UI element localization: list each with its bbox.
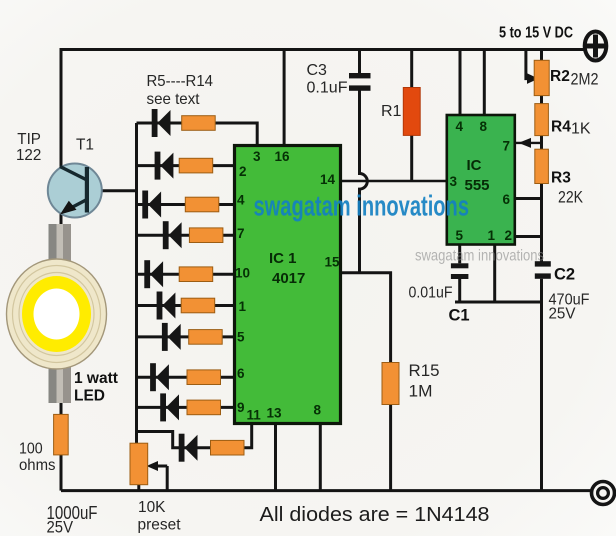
wire row pin3 [137,123,258,147]
LED bottom leg [49,367,72,404]
svg-text:0.1uF: 0.1uF [307,80,348,97]
diode D8 row pin6 [150,363,169,391]
svg-text:1: 1 [239,299,247,314]
svg-text:3: 3 [253,149,261,164]
wire IC1 pin16 riser to rail [283,50,286,147]
svg-text:C1: C1 [449,307,470,325]
wire preset wiper to ground rail with arrow [147,461,168,491]
svg-text:1K: 1K [571,121,591,138]
diode D4 row pin7 [163,221,182,249]
wire 555 pin2 to column [514,235,542,238]
transistor Q1 TIP122 [48,164,102,218]
wire C2 bottom to ground rail [540,279,543,491]
resistor R2 preset [534,60,549,95]
wire transistor base to common line [86,189,138,192]
resistor 100 ohms [54,414,69,455]
wire row pin7 [137,234,236,237]
resistor row pin4 [185,197,219,212]
wire 555 pin6 to column [514,197,542,200]
resistor 10K preset [130,443,148,485]
555 pin labels [450,119,513,243]
svg-text:8: 8 [314,403,322,418]
wire LED bottom leg to 100ohm [60,401,63,415]
svg-text:2: 2 [239,164,247,179]
wire R15 bottom to ground rail [389,404,392,491]
wire row pin2 [137,164,236,167]
svg-text:preset: preset [138,517,182,534]
svg-text:13: 13 [267,406,283,421]
wire R2 wiper branch with arrow [526,50,539,84]
svg-text:All diodes are = 1N4148: All diodes are = 1N4148 [260,504,490,526]
svg-text:1 watt: 1 watt [74,370,118,387]
wire R1 bottom [410,135,413,181]
svg-text:LED: LED [74,388,105,405]
wire IC1 pin14 to 555 pin3 [340,180,447,182]
svg-text:5: 5 [237,330,245,345]
wire 555 pin5 to C1 [458,244,461,263]
capacitor C2 [535,261,551,279]
svg-text:4: 4 [456,119,464,134]
svg-text:7: 7 [237,226,245,241]
wire row pin10 [137,273,236,276]
svg-text:10K: 10K [138,499,166,516]
resistor row pin7 [189,228,223,243]
capacitor C3 [349,73,371,91]
svg-text:2: 2 [505,228,513,243]
svg-text:1M: 1M [409,383,433,401]
wire row pin11 [137,423,252,448]
LED 1 watt lamp [7,259,107,369]
svg-text:10: 10 [235,266,250,281]
wire IC1 pin15 to R15 top [340,273,391,363]
svg-text:IC 1: IC 1 [269,250,297,267]
svg-text:5: 5 [456,228,464,243]
svg-text:25V: 25V [549,306,577,323]
wire row pin6 [137,376,236,379]
svg-text:100: 100 [19,441,43,458]
svg-text:8: 8 [480,119,488,134]
svg-text:5 to 15 V DC: 5 to 15 V DC [499,25,573,42]
diode D2 row pin2 [155,152,174,180]
svg-text:22K: 22K [558,189,583,207]
resistor row pin6 [187,370,221,385]
svg-text:TIP: TIP [17,131,41,148]
IC1 pin labels [235,149,340,423]
wire diode column common line [135,123,138,445]
svg-text:6: 6 [503,192,511,207]
wire IC1 pin13 drop to ground rail [274,423,277,491]
wire ground link under 555 [455,301,542,304]
diode D10 row pin11 [179,434,198,462]
svg-text:R1: R1 [381,103,402,120]
IC U1 4017 [235,146,341,424]
svg-text:25V: 25V [47,519,74,536]
wire C1 bottom to ground link [458,279,461,302]
svg-text:swagatam innovations: swagatam innovations [254,191,470,223]
resistor row pin9 [187,400,221,415]
resistor R4 [535,104,549,136]
diode D9 row pin9 [160,393,179,421]
wire R4 to R3 column [540,135,543,149]
terminal output negative [592,482,615,505]
wire R3 bottom column to C2 [540,183,543,262]
wire R1 top drop [410,50,413,89]
svg-text:122: 122 [16,147,41,164]
wire preset bottom stub [137,484,140,491]
wire C3 bottom with hop over pin14 wire [360,91,368,273]
wire row pin9 [137,406,236,409]
svg-text:C2: C2 [554,266,575,284]
svg-text:4: 4 [237,193,245,208]
svg-text:C3: C3 [307,62,328,79]
terminal positive supply [585,32,607,61]
wire row pin5 [137,335,236,338]
wire 555 pin7 to R4/R3 junction with arrow [514,138,542,148]
wire top positive rail [61,48,585,51]
diode D7 row pin5 [162,323,181,351]
resistor row pin3 [182,116,216,131]
svg-text:R2: R2 [550,68,570,85]
resistor R15 [382,363,399,405]
svg-text:IC: IC [467,157,482,174]
resistor row pin2 [179,158,213,173]
wire IC1 pin8 drop to ground rail [319,423,322,491]
wire R2 top stub [540,50,543,62]
diode D1 row pin3 [152,109,171,137]
diode D3 row pin4 [142,191,161,219]
resistor row pin1 [181,298,215,313]
svg-text:0.01uF: 0.01uF [409,285,453,302]
svg-text:11: 11 [247,408,262,423]
svg-text:see text: see text [147,91,201,108]
svg-text:swagatam innovations: swagatam innovations [415,248,544,265]
wire left drop to transistor collector [60,48,63,168]
diode D6 row pin1 [157,292,176,320]
svg-text:6: 6 [237,366,245,381]
svg-text:R4: R4 [551,119,571,136]
resistor row pin11 [211,440,245,455]
wire bottom ground rail [61,489,592,492]
svg-text:2M2: 2M2 [571,71,599,89]
svg-text:9: 9 [237,400,245,415]
LED top leg [49,224,72,265]
wire transistor emitter to LED leg [60,209,63,226]
resistor R3 [535,149,549,183]
wire R2 to R4 [540,95,543,104]
svg-text:16: 16 [275,149,291,164]
svg-text:R15: R15 [409,362,440,380]
wire 555 pin1 drop to ground link [493,244,496,302]
svg-text:R5----R14: R5----R14 [147,73,214,90]
wire 100ohm bottom to rail [60,454,63,491]
IC U2 555 [447,115,515,245]
svg-text:3: 3 [450,174,458,189]
svg-text:R3: R3 [551,170,571,187]
resistor row pin5 [189,330,223,345]
capacitor C1 [451,263,469,279]
resistor R1 [403,88,420,136]
resistor row pin10 [179,267,213,282]
svg-text:ohms: ohms [19,457,56,474]
diode D5 row pin10 [144,260,163,288]
svg-text:1: 1 [488,228,496,243]
wire C3 top drop [358,50,361,75]
wire row pin1 [137,304,236,307]
svg-text:15: 15 [325,255,341,270]
wire row pin4 [137,203,236,206]
wire 555 pin4 drop [459,50,462,117]
wire 555 pin8 drop [483,50,486,117]
svg-text:14: 14 [320,172,336,187]
svg-text:T1: T1 [76,137,94,154]
svg-text:7: 7 [503,139,511,154]
svg-text:4017: 4017 [272,270,305,287]
